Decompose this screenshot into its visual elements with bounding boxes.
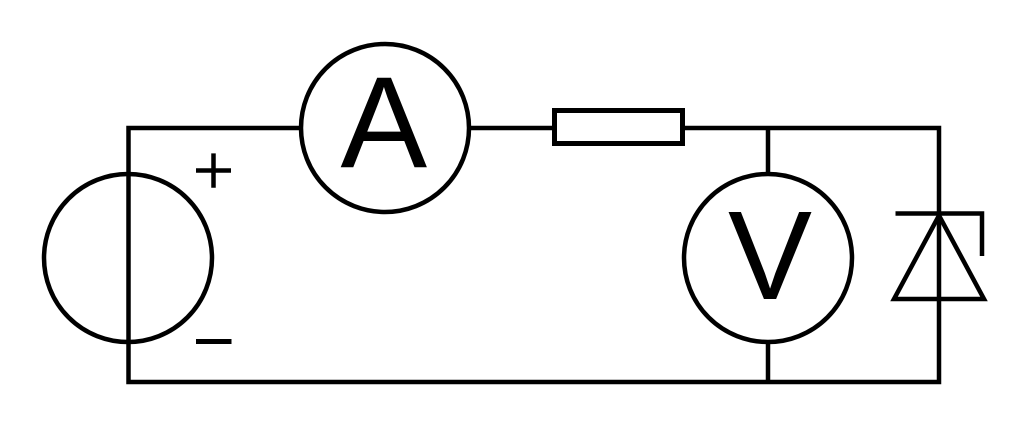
- svg-text:A: A: [340, 49, 427, 195]
- svg-text:V: V: [728, 185, 812, 326]
